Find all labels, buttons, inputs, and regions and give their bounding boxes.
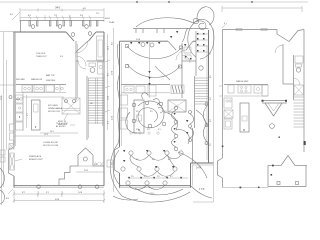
interior dim line (14, 135, 60, 137)
entry chamfer right (289, 31, 298, 42)
porch jambs (136, 29, 164, 34)
notch wall vertical (190, 163, 192, 188)
bath floor wall (283, 83, 294, 85)
stair hall wall lower (192, 128, 194, 163)
porch top wall (133, 28, 209, 30)
svg-text:RANGE DW: RANGE DW (31, 78, 42, 81)
bottom wall (120, 185, 191, 187)
top wall right stub (193, 40, 196, 42)
bath wall vertical (195, 31, 197, 76)
svg-text:FIREPLACE: FIREPLACE (29, 155, 42, 158)
porch left edge wall (20, 21, 22, 33)
svg-text:SINK REF: SINK REF (46, 80, 56, 82)
porch window jambs (29, 21, 98, 27)
svg-text:KITCHEN: KITCHEN (48, 105, 58, 107)
staircase treads (195, 78, 209, 104)
svg-text:ELEC: ELEC (105, 18, 111, 20)
chain circles x191 (189, 111, 192, 114)
fan hood symbol (262, 100, 287, 102)
right garland (203, 106, 207, 142)
entry chamfer left (276, 30, 278, 35)
rear house wall (70, 165, 78, 167)
big bottom sweep arc (122, 192, 190, 202)
entry post circle right (88, 32, 92, 36)
bath wall (76, 60, 79, 62)
svg-text:WOOD FLOOR: WOOD FLOOR (43, 145, 59, 147)
interior wall vertical 1 (282, 44, 284, 84)
porch front wall (20, 20, 104, 22)
extra left curl 2 (113, 196, 138, 200)
svg-text:BAR TOP: BAR TOP (46, 74, 55, 77)
small loop circle (193, 18, 199, 24)
fireplace bump-out (115, 147, 120, 173)
svg-text:W/D PAN: W/D PAN (16, 78, 25, 81)
stair wall (86, 76, 88, 140)
inner bottom arc (135, 188, 183, 195)
right wall dark mark (304, 141, 306, 145)
second dimension line (20, 17, 104, 19)
interior hall wall (181, 43, 183, 98)
svg-text:34'6: 34'6 (55, 6, 61, 10)
entry chamfer right (89, 32, 97, 41)
main top wall (120, 40, 169, 42)
left wall below (222, 178, 224, 188)
mid circles (132, 103, 136, 107)
smile arc 2 (127, 64, 180, 77)
bottom porch post circle 1 (37, 185, 40, 188)
bath shelf lines (196, 33, 209, 35)
counter box (46, 85, 54, 92)
big bottom sweep left (110, 142, 122, 196)
island (240, 103, 249, 132)
entry door arc (176, 50, 186, 60)
left exterior wall (119, 41, 121, 147)
vertical links (130, 155, 139, 167)
chevron marks (148, 71, 150, 85)
stair treads (294, 97, 305, 127)
cabinet box 3 (16, 122, 24, 130)
corner dim tick (12, 12, 20, 20)
bath door arc (78, 61, 86, 69)
fan petal arcs (142, 93, 163, 113)
bay circle (83, 157, 87, 161)
svg-text:LIVING ROOM: LIVING ROOM (43, 142, 58, 144)
fan circle (270, 124, 275, 129)
small circle row (130, 132, 132, 134)
sheet border tick 3 (251, 1, 253, 3)
garland arcs rows (131, 155, 181, 160)
sheet border tick 1 (136, 1, 138, 3)
bath door arc (182, 55, 190, 63)
terrace edge line (223, 187, 269, 189)
sheet border tick 2 (168, 1, 170, 3)
sliver vertical line (1, 95, 3, 205)
top wall light circles (141, 43, 145, 47)
svg-text:THRUOUT: THRUOUT (36, 56, 47, 58)
smile arc 1 (127, 46, 181, 59)
porch post square 1 (277, 182, 280, 185)
right link arc (196, 110, 206, 124)
rear wall door dot (272, 165, 274, 167)
spiral curl (193, 21, 206, 30)
closet top right (97, 36, 104, 60)
svg-text:PLAN: PLAN (109, 21, 115, 24)
bottom right sweep (178, 152, 207, 178)
svg-text:TILE FLR: TILE FLR (36, 53, 46, 55)
left margin dim line (113, 28, 115, 192)
chain chevrons (174, 113, 176, 143)
counter front edge (22, 96, 64, 98)
left wall below fireplace (13, 176, 15, 188)
lower circles row C (126, 181, 130, 185)
porch outline (267, 166, 269, 187)
entry chamfer left (66, 32, 74, 41)
small dot (279, 137, 280, 138)
big outer loop (188, 19, 214, 59)
right exterior wall (303, 30, 305, 153)
connector into wall (182, 28, 188, 42)
main top wall left (14, 31, 67, 33)
right margin line (213, 29, 215, 164)
left counter boxes (120, 95, 128, 105)
island (32, 100, 41, 130)
notch wall horizontal (191, 162, 214, 164)
wavy wire along left margin (117, 44, 119, 142)
left counter boxes (224, 98, 232, 108)
speck column marks (185, 33, 205, 60)
sliver curves (0, 168, 5, 188)
rear door X marks (95, 162, 104, 166)
bottom dim line 1 (14, 193, 104, 195)
left counter (22, 93, 24, 132)
sink box (34, 85, 44, 92)
porch post circle 3 (85, 25, 89, 29)
extra left curl 1 (113, 150, 121, 186)
bay window pentagon (78, 148, 93, 166)
left margin boxes (10, 124, 15, 131)
svg-text:14 R: 14 R (196, 167, 201, 170)
window sill marks (236, 28, 242, 30)
island (134, 100, 144, 133)
rear house wall (268, 165, 281, 167)
svg-text:INSERT UNIT: INSERT UNIT (29, 159, 43, 161)
sheet top border line (0, 1, 308, 3)
porch post circle 1 (31, 25, 35, 29)
stair wall (194, 76, 196, 128)
gable notch (281, 156, 295, 166)
porch corner mark (271, 174, 273, 176)
svg-text:DINING AREA: DINING AREA (48, 107, 63, 110)
stair center stringer (94, 78, 96, 124)
bath door arc (294, 78, 301, 85)
bath lower wall (182, 60, 196, 62)
chain circles x176 (174, 106, 178, 110)
cabinet box 1 (16, 104, 24, 112)
top dim line (222, 7, 302, 9)
panel box outside (107, 160, 113, 167)
left wall tick marks (219, 85, 223, 87)
right exterior wall (103, 32, 105, 186)
fire nook (62, 98, 80, 114)
sliver boxes (0, 150, 5, 155)
left exterior wall (222, 30, 224, 159)
svg-text:1 T.P.: 1 T.P. (199, 188, 205, 191)
left exterior wall (13, 32, 15, 147)
cooktop box (16, 95, 24, 103)
svg-text:BUILT IN: BUILT IN (58, 121, 67, 123)
entry chamfer left (168, 41, 176, 50)
patio faint outline (213, 163, 215, 202)
bottom dim line 2 (14, 200, 104, 202)
top dim extra ticks (29, 16, 91, 20)
porch post circle 2 (58, 25, 62, 29)
interior wall vertical 2 (293, 55, 295, 100)
bottom porch post circle 2 (78, 185, 81, 188)
dark hatched pantry (171, 85, 184, 94)
svg-text:UP: UP (90, 103, 94, 105)
entry chamfer right (186, 41, 193, 50)
left margin dim line (3, 32, 5, 187)
counter dim line (26, 95, 28, 128)
dim extension left (0, 31, 14, 33)
lower circles row B (137, 167, 141, 171)
svg-text:WOOD FLR: WOOD FLR (48, 111, 60, 113)
left wall below fireplace (119, 173, 121, 188)
svg-text:RANGE SINK: RANGE SINK (236, 80, 249, 83)
kitchen counter band (16, 84, 66, 86)
kitchen counter band (224, 84, 268, 86)
sink (254, 85, 262, 93)
right exterior wall (208, 30, 210, 163)
interior door arc hall (76, 56, 86, 66)
entry door opening arc (75, 41, 88, 53)
fireplace bump-out (9, 147, 15, 176)
hall closet rects (184, 47, 191, 53)
fireplace bump-out (218, 158, 223, 178)
cabinet box 2 (16, 113, 24, 121)
yarn ball loops (138, 101, 164, 128)
toilet (199, 66, 203, 70)
squiggle connector (155, 66, 170, 80)
extra circle row B left (121, 167, 125, 171)
range with burners (238, 85, 251, 93)
rear wall step (59, 166, 70, 186)
entry post circle left (71, 33, 75, 37)
terrace post dots (240, 187, 242, 189)
porch post square 2 (296, 182, 299, 185)
bottom porch wall (14, 185, 104, 187)
bath toilet (296, 68, 300, 72)
bath vanity (295, 56, 303, 63)
toilet (89, 63, 96, 67)
closet X box (294, 85, 304, 95)
hall door arc (275, 45, 283, 53)
interior wall vertical (75, 41, 77, 100)
svg-text:SHELVES: SHELVES (58, 124, 68, 126)
fire nook X box (168, 100, 186, 112)
bottom porch post circle 3 (95, 185, 98, 188)
corner tick (222, 23, 227, 28)
top dimension line overall (20, 9, 104, 11)
vanity (98, 62, 105, 74)
right margin dim (107, 34, 109, 130)
lower circles row A (129, 151, 133, 155)
kitchen counter band (121, 84, 170, 86)
big flat top arc (136, 18, 193, 27)
notch corner curve (191, 186, 212, 198)
wall dot (222, 146, 224, 148)
wing dim line (76, 171, 104, 173)
main top wall right (96, 31, 104, 33)
arrowheads scatter (123, 31, 188, 168)
corner box (262, 85, 268, 96)
centerline wire (149, 42, 151, 98)
upper loop (197, 7, 214, 25)
top wall (223, 29, 278, 31)
range box (22, 85, 32, 92)
staircase treads (89, 78, 104, 123)
